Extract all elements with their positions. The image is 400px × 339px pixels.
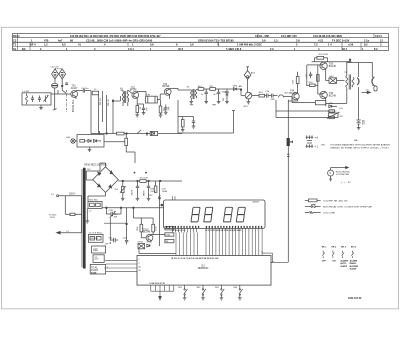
junction dots on +rail [122, 180, 124, 182]
legend row 3 symbol [305, 211, 321, 214]
svg-text:100M: 100M [162, 191, 167, 193]
svg-text:3120: 3120 [91, 272, 97, 275]
svg-text:15V: 15V [87, 169, 91, 171]
resistor R20 above TS5 [317, 56, 324, 59]
wire down to bus [90, 91, 92, 134]
transistor TS4 [292, 93, 299, 100]
svg-text:SK 2: SK 2 [331, 247, 337, 249]
wire X2 right to bus [102, 207, 164, 209]
svg-text:OA90: OA90 [222, 91, 228, 94]
svg-text:VOLTAGES MEASURED WITH 20kOHM/: VOLTAGES MEASURED WITH 20kOHM/V METER AG… [330, 143, 391, 146]
mains wire top [59, 195, 82, 197]
table row 3 text [13, 43, 382, 47]
label switch [49, 214, 58, 219]
diode GR13 [147, 244, 150, 247]
transistor TS10 [146, 234, 153, 241]
capacitor C32 [126, 238, 128, 240]
wire TS6 collector down [325, 98, 327, 103]
svg-text:C1a C1b: C1a C1b [50, 67, 59, 69]
ground under C8 [142, 112, 146, 114]
ground under C14 [217, 101, 221, 103]
svg-text:R22 NTC: R22 NTC [328, 111, 337, 113]
AGC riser [233, 111, 235, 134]
wire to T1 [113, 100, 121, 102]
svg-text:BC148: BC148 [329, 96, 337, 98]
svg-text:1,5: 1,5 [274, 38, 278, 42]
svg-text:S1: S1 [13, 47, 17, 51]
transistor TS6 [320, 91, 327, 98]
wire jack to pot [247, 79, 249, 92]
svg-text:10 11 12 13 14 15 16 17 18 19: 10 11 12 13 14 15 16 17 18 19 20 21 22 2… [205, 229, 241, 232]
svg-text:OFF: OFF [322, 261, 327, 263]
wire det down to volume [240, 90, 242, 96]
svg-text:GR3: GR3 [233, 86, 238, 88]
AGC bottom wire [178, 132, 234, 134]
lamp resistor [80, 140, 85, 143]
terminator r [329, 110, 334, 113]
bottom wire y253.5 [139, 253, 176, 255]
svg-text:100 R6 2k2 R11 1k R16 5k6 R21: 100 R6 2k2 R11 1k R16 5k6 R21 47k R26 15… [70, 34, 161, 38]
right vertical to battery [358, 87, 360, 120]
plus C26 [145, 172, 147, 174]
wire S1 to TS3 [145, 91, 147, 96]
coupling coil L3 [92, 91, 98, 95]
IC right pin wire [271, 261, 288, 263]
svg-text:MA.: MA. [354, 139, 358, 142]
IF filter block S1 [146, 96, 158, 103]
wire to TS1 [58, 93, 71, 95]
display-to-IC wires [176, 232, 262, 255]
voltmeter arrow wire [328, 166, 349, 181]
label near riser right [162, 188, 167, 192]
wire TS2 emitter to C8 [137, 103, 143, 105]
svg-text:5,6: 5,6 [190, 43, 194, 47]
resistor R11 [210, 88, 216, 91]
label TS5 [329, 64, 337, 68]
resistor R14 [259, 94, 265, 97]
svg-text:5,6: 5,6 [262, 38, 266, 42]
gang mechanical link dashed [55, 68, 62, 70]
svg-text:12 34 35 36 37 38: 12 34 35 36 37 38 [149, 282, 164, 285]
ground B [212, 104, 215, 106]
ground stub left [86, 208, 88, 221]
svg-text:L1 452: L1 452 [23, 91, 30, 93]
legend cap symbol 2 [306, 143, 314, 148]
B+ rail y133.5 [91, 133, 182, 135]
svg-text:7,5: 7,5 [314, 43, 318, 47]
svg-text:100M: 100M [142, 190, 144, 195]
ground under battery [357, 127, 361, 129]
diode GR5 row [325, 103, 327, 106]
IC left pin wires [104, 261, 137, 272]
base feed vertical [307, 64, 322, 66]
svg-text:R1 39k: R1 39k [99, 99, 101, 107]
bridge output right [118, 180, 182, 182]
ground under C11 [164, 111, 168, 113]
svg-text:6,5: 6,5 [62, 43, 66, 47]
diode GR3 detector [233, 88, 236, 91]
svg-text:T4 SEC 2×15V: T4 SEC 2×15V [332, 38, 350, 42]
connector block X4 [92, 246, 106, 253]
connector in alarm line [287, 138, 290, 146]
vertical feed x126.6 [126, 208, 128, 238]
label TS4 [289, 91, 297, 95]
IF transformer T2 [191, 90, 193, 98]
svg-text:470M: 470M [130, 190, 132, 196]
plug break in alarm line [287, 153, 290, 155]
lamp diode 2 [94, 139, 97, 142]
socket symbol [372, 78, 374, 85]
display top-left ticks [172, 196, 175, 200]
svg-text:3 0,1: 3 0,1 [128, 47, 134, 51]
svg-text:ON: ON [332, 261, 336, 263]
svg-text:1 4: 1 4 [328, 43, 332, 47]
svg-text:3 8: 3 8 [296, 38, 300, 42]
svg-text:4.5V: 4.5V [93, 249, 98, 251]
fuse/switch in mains [65, 213, 70, 215]
capacitor C22 under rail [146, 134, 148, 137]
svg-text:1,2: 1,2 [44, 43, 48, 47]
svg-text:ELECTRICAL CONT. CLOSES WITH O: ELECTRICAL CONT. CLOSES WITH OPEN FLAP [323, 206, 373, 209]
IF transformer T1 primary [122, 92, 124, 102]
speaker feed wires [347, 62, 373, 64]
bridge top lead [105, 163, 107, 167]
transistor TS3 [164, 88, 171, 95]
label TS6 [329, 93, 337, 97]
junction dots on bus [106, 207, 108, 209]
bridge bottom lead [105, 192, 107, 196]
junction dot C31 [110, 242, 112, 244]
digit 4 [236, 207, 245, 222]
svg-text:BC148: BC148 [289, 93, 297, 95]
svg-text:C24 2: C24 2 [375, 34, 382, 38]
svg-text:GR12: GR12 [138, 242, 144, 244]
lamp box [77, 135, 104, 147]
ground under GR2 [225, 101, 229, 103]
feedback vertical from TS4 [287, 100, 289, 262]
svg-text:1 2 3 4 5 6 7 8 9: 1 2 3 4 5 6 7 8 9 [172, 229, 186, 232]
wire TS1 collector right [75, 90, 77, 93]
ground under R4 [135, 114, 139, 116]
lamp circle left [71, 139, 75, 143]
svg-text:C19 30-68-215-364 4822: C19 30-68-215-364 4822 [313, 34, 343, 38]
svg-text:SLEEP: SLEEP [340, 266, 347, 268]
transistor TS1 [71, 91, 78, 98]
electrolytic C19 [310, 72, 312, 75]
svg-text:SLEEP: SLEEP [350, 268, 357, 270]
resistor R24 on rail [117, 132, 125, 135]
svg-text:220V~: 220V~ [69, 193, 76, 195]
svg-text:AF117: AF117 [71, 87, 78, 90]
wire TS4 emitter down [297, 99, 299, 101]
svg-text:COIL CORE: COIL CORE [323, 212, 335, 214]
label C29 [114, 214, 119, 218]
svg-text:BC: BC [22, 47, 26, 51]
IC part number [198, 265, 209, 270]
svg-text:n 56: n 56 [348, 43, 354, 47]
bus end dot at display [161, 204, 163, 206]
label battery [362, 121, 366, 126]
resistor R43 right [165, 233, 174, 236]
svg-text:40 6: 40 6 [178, 47, 184, 51]
svg-text:BF 4: BF 4 [30, 43, 36, 47]
svg-text:18 19 2 3 1 5 6 4 7 9 8 21: 18 19 2 3 1 5 6 4 7 9 8 21 0 2 24 26 27 … [171, 257, 218, 260]
svg-text:56,7: 56,7 [342, 47, 348, 51]
svg-text:VOLTMETER: VOLTMETER [336, 174, 350, 176]
core hatch [83, 170, 85, 268]
resistor R7 [159, 106, 162, 113]
ground under R7 [159, 114, 163, 116]
resistor R4 [136, 106, 139, 113]
svg-text:4822B: 4822B [252, 201, 259, 203]
svg-text:5 4822 146 8: 5 4822 146 8 [226, 47, 242, 51]
svg-text:240 240: 240 240 [90, 238, 98, 240]
transformer T4 core bar [83, 168, 86, 269]
IC bottom pins [151, 285, 174, 296]
capacitor C14 [218, 89, 220, 92]
bridge diode 2 [110, 171, 113, 174]
svg-text:40P: 40P [114, 217, 118, 219]
capacitor C31 [111, 239, 114, 241]
elco C25 [137, 181, 139, 186]
TS3 emitter down [169, 95, 171, 99]
vertical feed wires [98, 95, 100, 134]
wire TS5 emitter down to diode box [325, 69, 327, 81]
pot wiper out [252, 95, 256, 97]
diode bias GR4 [329, 78, 337, 84]
wire gang C1b down to TS1 base [61, 79, 63, 90]
display pins bottom [173, 228, 263, 232]
R18 pair [309, 84, 315, 87]
capacitor C12 [193, 117, 195, 122]
wire TS4 emitter to alarm line [288, 100, 297, 102]
bias network box under TS4 [315, 101, 325, 105]
ground A [190, 104, 193, 106]
svg-text:BC148: BC148 [329, 66, 337, 68]
svg-text:470: 470 [44, 38, 49, 42]
diode box GR12 [138, 243, 145, 248]
display pin number row [172, 229, 242, 232]
svg-text:R20 150R: R20 150R [319, 54, 329, 56]
speaker LS small [374, 86, 377, 91]
label TS3 [162, 84, 169, 88]
svg-text:R2 8k2: R2 8k2 [107, 100, 109, 107]
table body text [322, 260, 359, 271]
AGC top stub wire [178, 116, 194, 118]
top feed wire [132, 208, 134, 218]
svg-text:1M: 1M [165, 241, 168, 243]
capacitor C2 in box [39, 96, 41, 99]
ground under R9 [181, 129, 185, 131]
mains wire down [64, 196, 66, 215]
display module outline [164, 200, 266, 228]
bias resistors on left rail [317, 75, 320, 82]
voltmeter note [336, 171, 351, 176]
resistor R41 [152, 224, 155, 232]
svg-text:GR10 4822 130 34161: GR10 4822 130 34161 [84, 165, 108, 167]
junction det [240, 89, 242, 91]
legend row 2 symbol [305, 204, 321, 207]
ground under lamp box [89, 147, 91, 149]
wire to detector [219, 88, 233, 90]
transistor TS2 [132, 92, 139, 99]
svg-text:COIL REF. NR. 4822 156: COIL REF. NR. 4822 156 [323, 200, 348, 202]
resistor R42 right [165, 227, 174, 230]
switch SK3 [220, 285, 222, 289]
svg-text:R31 47R: R31 47R [140, 178, 149, 180]
display pin pads row [166, 226, 262, 228]
trimmer C3 arrow [45, 96, 47, 103]
wire TS4 base bias down [291, 97, 293, 103]
capacitor C2 in base line [65, 82, 68, 84]
svg-text:AM: AM [239, 85, 242, 88]
svg-text:R1C1: R1C1 [13, 34, 20, 38]
capacitor C17 series [271, 94, 273, 98]
svg-text:TS1 BF195: TS1 BF195 [71, 100, 74, 113]
lamp diode 1 [88, 139, 91, 142]
svg-text:BF195: BF195 [130, 90, 137, 92]
svg-text:SK 4: SK 4 [351, 246, 357, 249]
svg-text:AUTO: AUTO [340, 262, 346, 265]
legend row 1 coil symbol [305, 199, 321, 202]
legend measurement text [319, 143, 391, 149]
svg-text:C5 10n: C5 10n [81, 88, 89, 90]
ground under pot [247, 99, 249, 102]
table row 1 text [13, 34, 382, 38]
output transformer T3 primary [346, 76, 348, 88]
wire bus down to C30 [105, 208, 107, 214]
transistor TS5 [320, 62, 327, 69]
transformer primary winding [81, 196, 83, 233]
capacitor C1 in box [32, 96, 34, 99]
svg-text:ALARM: ALARM [340, 260, 348, 263]
riser top tick [158, 195, 160, 196]
diode GR2 vertical [226, 89, 228, 92]
tuning gang C1a diamond [52, 69, 59, 79]
resistor R32 [155, 181, 157, 186]
elco C26 [148, 181, 150, 186]
resistor R31 series on rail [140, 180, 146, 183]
thermistor R22 [328, 113, 338, 117]
connector block X5 [93, 255, 104, 263]
resistor R9 [181, 120, 184, 127]
wire T2 sec to R10 [196, 89, 198, 90]
svg-text:GR10 BY164 TS1–TS3 BF195: GR10 BY164 TS1–TS3 BF195 [198, 38, 234, 42]
connector block X3 [88, 234, 103, 242]
svg-text:0,6: 0,6 [150, 43, 154, 47]
capacitor C16 series [266, 94, 268, 98]
legend cap symbol 1 [306, 135, 314, 140]
table row 2 text [13, 38, 383, 42]
AGC feed vertical [177, 100, 179, 133]
switch labels [178, 287, 238, 289]
svg-text:GR13: GR13 [146, 242, 152, 244]
resistor R44 right [165, 239, 174, 242]
digit 3 [223, 207, 232, 222]
mains terminal [57, 195, 59, 197]
coil L1 winding [26, 96, 28, 103]
wire diode box to transformer mid [337, 80, 345, 82]
svg-text:2 9: 2 9 [270, 47, 274, 51]
svg-text:CLOCK 8510: CLOCK 8510 [89, 233, 103, 235]
bridge diode 4 [109, 185, 112, 188]
mech link dash-dot [66, 90, 68, 112]
mains arrow lower [60, 232, 82, 234]
table row 4 text [13, 47, 378, 51]
capacitor C13 [205, 89, 207, 92]
T3 top lead [346, 62, 348, 76]
svg-text:V: V [330, 171, 332, 175]
svg-text:4 21: 4 21 [318, 38, 324, 42]
rail corner down riser [159, 181, 161, 246]
label TS1 above [71, 85, 78, 89]
ground under C13 [204, 101, 208, 103]
capacitor C11 [165, 105, 167, 108]
wire gang C1a down [54, 79, 56, 83]
T3 bottom lead [346, 88, 348, 104]
battery BT1 [356, 119, 360, 121]
terminator r2 [329, 116, 334, 119]
connector block X6 [90, 264, 105, 274]
svg-text:C2: C2 [13, 38, 17, 42]
parts list table [13, 34, 389, 51]
voltmeter circle [328, 170, 334, 176]
svg-text:→ 950: → 950 [319, 144, 326, 146]
T3 secondary [352, 78, 354, 88]
connector block X2 [88, 201, 102, 208]
svg-text:SK 1: SK 1 [322, 247, 328, 249]
switch tap on rail [137, 130, 141, 134]
display last pin jog to IC right [262, 251, 274, 263]
svg-text:BF195: BF195 [162, 86, 169, 88]
table headers [322, 246, 357, 249]
svg-text:3122 137 32: 3122 137 32 [348, 297, 362, 300]
wire y223 [104, 218, 127, 241]
svg-text:8 2: 8 2 [374, 47, 378, 51]
volume potentiometer R13 [245, 92, 252, 99]
label TS2 [130, 87, 137, 91]
IC right riser [270, 261, 272, 263]
switch SK1 [184, 285, 186, 289]
svg-text:C9 33…56P: C9 33…56P [255, 34, 269, 38]
resistor R25 right of lamp box [125, 138, 128, 145]
junction [126, 223, 128, 225]
supply rail top [312, 61, 352, 63]
label near riser left [150, 188, 155, 192]
bridge diode 1 [98, 172, 101, 175]
svg-text:CHASSIS. NO SIGNAL INPUT. SUPP: CHASSIS. NO SIGNAL INPUT. SUPPLY 220V AC… [330, 147, 390, 150]
svg-text:C31 68…5600 C36 1n5 / 6800–56P: C31 68…5600 C36 1n5 / 6800–56P–4n GR1–GR… [86, 38, 153, 42]
svg-text:C14 4M7 10V: C14 4M7 10V [281, 34, 297, 38]
lamp box top feed [99, 131, 101, 135]
BU1 top stub [247, 67, 249, 71]
resistor R10 [198, 88, 204, 91]
svg-text:RADIO: RADIO [350, 262, 357, 265]
table switch symbols [322, 251, 353, 258]
TS3 collector right [169, 87, 171, 90]
svg-text:BC548: BC548 [143, 232, 151, 234]
diode GR6 on rail [150, 131, 157, 135]
capacitor C5 series [82, 89, 84, 93]
oscillator coil L2 ellipse [52, 83, 58, 88]
trimmer pot R30 [122, 181, 124, 186]
svg-text:47P: 47P [105, 243, 109, 245]
svg-text:(…) → 9V: (…) → 9V [341, 182, 351, 184]
arrow under bus [159, 296, 161, 299]
line y111 [276, 110, 329, 112]
capacitor C8 [143, 105, 145, 108]
label X6 text [91, 266, 99, 274]
